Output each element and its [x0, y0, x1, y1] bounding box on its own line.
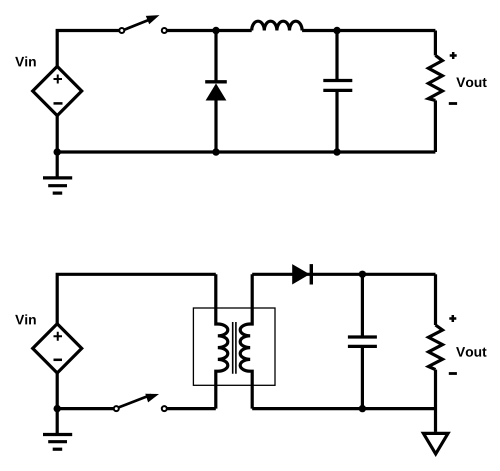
wire (output corner down to resistor, flyback) [434, 274, 437, 325]
resistor (Vout load, flyback) [429, 325, 443, 370]
wire (capacitor C1 top lead) [335, 31, 338, 81]
resistor (Vout load, buck) [428, 55, 442, 100]
V2 minus sign [54, 359, 63, 362]
wire (capacitor C2 top lead) [361, 274, 364, 337]
wire (resistor to ground triangle, flyback) [434, 370, 437, 432]
transformer T1 core [233, 322, 236, 374]
V2 plus sign [54, 332, 63, 341]
diode D1 (freewheeling, cathode up) [205, 82, 227, 101]
node (capacitor C2 tap, bottom rail) [359, 405, 366, 412]
label Vout (flyback) [456, 347, 486, 357]
V1 plus sign [54, 75, 63, 84]
wire (Vin top to transformer primary, flyback) [57, 274, 216, 324]
node (capacitor C1 tap, bottom rail) [333, 148, 340, 155]
source V2 diamond (Vin, flyback) [33, 324, 82, 373]
ground (flyback, left) [43, 409, 72, 450]
wire (resistor to bottom rail) [434, 100, 437, 152]
source V1 diamond (Vin, buck) [33, 66, 82, 115]
wire (V2 junction to switch S2) [57, 407, 116, 410]
node (diode D1 tap, bottom rail) [212, 148, 219, 155]
plus sign (Vout, buck) [450, 52, 457, 59]
wire (capacitor C2 bottom lead) [361, 346, 364, 408]
diode D2 (output rectifier) [292, 264, 311, 284]
transformer T1 box [193, 308, 275, 385]
switch S1 (buck) [119, 15, 167, 33]
wire (bottom rail right, flyback) [252, 407, 435, 410]
wire (V2 bottom lead) [56, 373, 59, 409]
transformer T1 primary winding [216, 274, 228, 408]
wire (bottom rail, buck) [57, 150, 435, 153]
minus sign (Vout, buck) [449, 102, 457, 105]
wire (top-right corner down to resistor) [434, 31, 437, 56]
wire (switch S1 to inductor L1) [167, 29, 252, 32]
wire (Vin top to switch S1, buck) [57, 31, 122, 67]
minus sign (Vout, flyback) [449, 372, 457, 375]
wire (switch S2 to primary bottom) [167, 407, 216, 410]
node (capacitor C1 tap, top) [333, 27, 340, 34]
switch S2 (flyback) [114, 394, 167, 411]
wire (secondary top to output corner, flyback) [252, 273, 435, 276]
plus sign (Vout, flyback) [449, 315, 456, 322]
wire (inductor L1 to top-right corner) [302, 29, 435, 32]
wire (capacitor C1 bottom lead) [335, 90, 338, 152]
label Vin (buck) [15, 56, 36, 66]
inductor L1 [252, 21, 302, 30]
wire (diode D1 bottom lead) [214, 101, 217, 153]
wire (V1 bottom to rail) [56, 116, 59, 152]
wire (diode D1 top lead) [214, 31, 217, 83]
ground (buck) [43, 152, 72, 193]
node (ground tap, bottom rail) [54, 148, 61, 155]
node (ground tap, flyback) [54, 405, 61, 412]
label Vin (flyback) [15, 314, 36, 324]
label Vout (buck) [456, 78, 486, 88]
node (diode D1 tap, top) [212, 27, 219, 34]
transformer T1 secondary winding [240, 274, 252, 408]
ground (flyback, right triangle) [423, 433, 448, 454]
node (capacitor C2 tap, top) [359, 271, 366, 278]
capacitor C1 [323, 81, 352, 91]
capacitor C2 [348, 337, 377, 346]
V1 minus sign [54, 102, 63, 105]
